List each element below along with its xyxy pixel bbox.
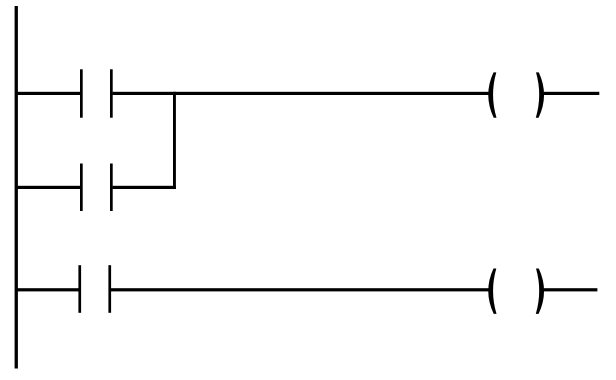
NO contact (branch) left bar	[80, 164, 83, 212]
wire rung 2: rail to contact	[15, 288, 79, 291]
wire rung 2: contact to coil	[111, 288, 489, 291]
coil (rung 1) right parenthesis	[536, 72, 544, 117]
NO contact (rung 1) left bar	[80, 69, 83, 117]
left power rail	[15, 6, 18, 369]
coil (rung 2) right parenthesis	[536, 269, 544, 314]
wire rung 1: coil to right end	[544, 92, 600, 95]
wire branch vertical (rung 1 parallel branch)	[173, 92, 176, 189]
wire rung 1: contact to coil	[113, 92, 489, 95]
wire branch rung: contact to branch vertical	[113, 186, 176, 189]
coil (rung 2) left parenthesis	[488, 269, 496, 314]
NO contact (rung 2) left bar	[78, 265, 81, 313]
coil (rung 1) left parenthesis	[488, 72, 496, 117]
NO contact (rung 1) right bar	[110, 69, 113, 117]
NO contact (rung 2) right bar	[108, 265, 111, 313]
wire branch rung: rail to contact	[15, 186, 80, 189]
wire rung 2: coil to right end	[544, 288, 598, 291]
wire rung 1: rail to contact	[15, 92, 80, 95]
NO contact (branch) right bar	[110, 164, 113, 212]
